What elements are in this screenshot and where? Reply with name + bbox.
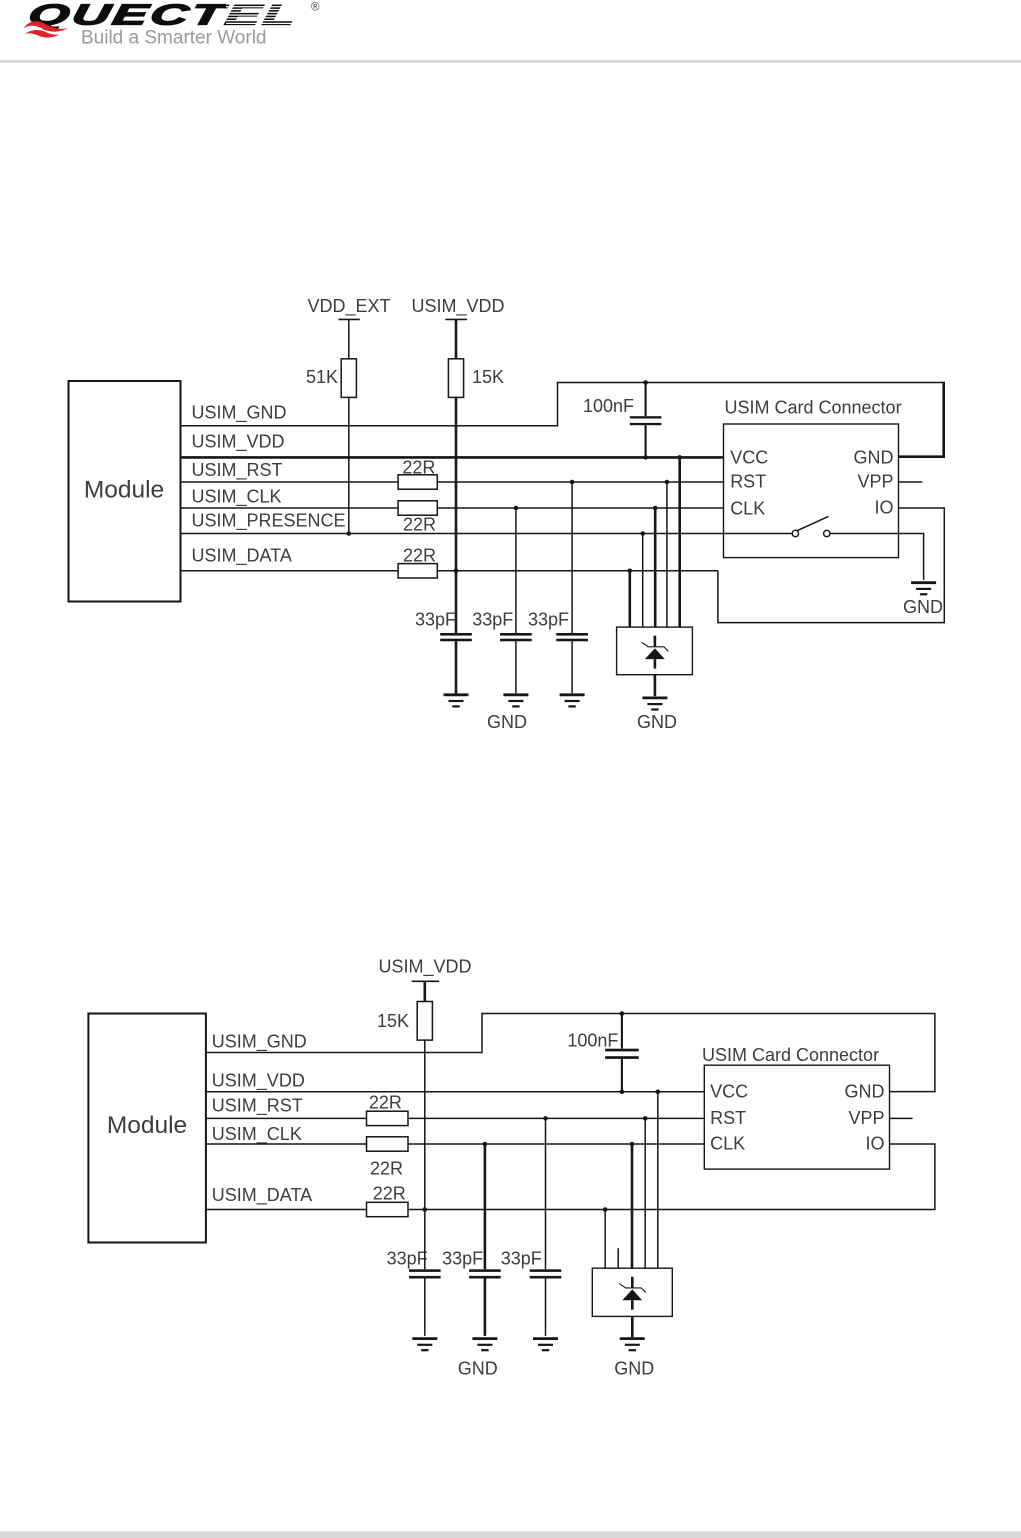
svg-text:®: ® (311, 2, 320, 14)
svg-text:GND: GND (854, 447, 894, 467)
svg-text:33pF: 33pF (528, 610, 569, 630)
resistor 15K (schematic 2) (377, 1002, 432, 1041)
svg-text:CLK: CLK (710, 1134, 745, 1154)
svg-text:USIM_DATA: USIM_DATA (192, 546, 292, 567)
pin label VPP (schematic 1) (857, 471, 893, 491)
capacitor C3 33pF on USIM_RST (schematic 1) (528, 480, 588, 694)
svg-text:USIM_PRESENCE: USIM_PRESENCE (192, 511, 346, 532)
ground under C2 (schematic 2) (472, 1339, 497, 1351)
svg-text:USIM Card Connector: USIM Card Connector (702, 1045, 879, 1065)
svg-text:VCC: VCC (730, 447, 768, 467)
wire USIM_RST to ESD array (665, 480, 670, 627)
resistor 15K (schematic 1) (448, 359, 504, 398)
net label USIM_VDD (schematic 2) (212, 1071, 305, 1092)
svg-text:VDD_EXT: VDD_EXT (307, 296, 390, 317)
wire USIM_GND from module to connector GND (schematic 2) (206, 1014, 935, 1092)
wire IO to USIM_DATA (routed) (718, 508, 944, 623)
svg-text:22R: 22R (403, 546, 436, 566)
junction 100nF top (643, 380, 648, 385)
net label USIM_CLK (schematic 1) (192, 486, 282, 507)
wire VPP stub (899, 481, 923, 483)
pin label VCC (schematic 2) (710, 1081, 748, 1101)
wire USIM_GND from module to top rail and USIM connector GND (181, 383, 944, 426)
svg-text:USIM_DATA: USIM_DATA (212, 1185, 312, 1206)
svg-text:VCC: VCC (710, 1081, 748, 1101)
pin label IO (schematic 1) (874, 498, 893, 518)
svg-text:100nF: 100nF (583, 396, 634, 416)
module block (Module, schematic 1) (69, 381, 181, 602)
svg-text:GND: GND (487, 712, 527, 732)
svg-text:RST: RST (730, 471, 766, 491)
Quectel logo (24, 0, 321, 38)
svg-text:15K: 15K (377, 1011, 409, 1031)
header rule (0, 60, 1021, 63)
svg-text:22R: 22R (369, 1093, 402, 1113)
resistor 22R on USIM_CLK (schematic 2) (367, 1137, 409, 1179)
wire USIM_VDD rail (schematic 2) (206, 1091, 704, 1093)
wire 51K to USIM_PRESENCE (348, 397, 350, 533)
resistor 22R on USIM_RST (schematic 1) (398, 457, 437, 489)
svg-text:VPP: VPP (848, 1108, 884, 1128)
ground under C3 (schematic 2) (533, 1339, 558, 1351)
resistor 22R on USIM_DATA (schematic 2) (367, 1184, 409, 1217)
capacitor C1 33pF on USIM_DATA (schematic 2) (387, 1210, 441, 1336)
pin label IO (schematic 2) (865, 1134, 884, 1154)
svg-text:USIM_VDD: USIM_VDD (192, 431, 285, 452)
capacitor C2 33pF on USIM_CLK (schematic 2, bold) (442, 1142, 501, 1336)
wire USIM_PRESENCE to switch (181, 533, 793, 535)
svg-text:USIM_VDD: USIM_VDD (411, 296, 504, 317)
wire ESD array to ground (654, 675, 657, 697)
wire GND pin stub (bold) (899, 382, 944, 457)
svg-text:Build a Smarter World: Build a Smarter World (81, 28, 267, 49)
wire 15K to USIM_DATA (bold) (455, 397, 458, 570)
svg-text:USIM_GND: USIM_GND (192, 403, 287, 424)
wire USIM_CLK to ESD array (bold) (653, 506, 658, 627)
svg-text:GND: GND (614, 1359, 654, 1379)
USIM card connector box (schematic 1) (724, 398, 902, 558)
svg-text:CLK: CLK (730, 498, 765, 518)
svg-text:IO: IO (865, 1134, 884, 1154)
wire USIM_VDD rail to ESD array (bold) (677, 455, 682, 627)
net label USIM_RST (schematic 2) (212, 1096, 303, 1117)
ground under C1 (schematic 2) (412, 1339, 437, 1351)
wire USIM_DATA (181, 570, 718, 572)
svg-text:GND: GND (845, 1081, 885, 1101)
ground under C3 (560, 695, 585, 707)
junction 100nF bottom (schematic 2) (620, 1090, 625, 1095)
net label USIM_RST (schematic 1) (192, 460, 283, 481)
junction 15K/USIM_DATA (454, 569, 459, 574)
resistor 22R on USIM_CLK (schematic 1) (398, 501, 437, 535)
pin label RST (schematic 2) (710, 1108, 746, 1128)
junction 100nF top (schematic 2) (620, 1011, 625, 1016)
svg-text:VPP: VPP (857, 471, 893, 491)
svg-text:USIM_CLK: USIM_CLK (192, 486, 282, 507)
svg-text:33pF: 33pF (387, 1249, 428, 1269)
junction 51K/USIM_PRESENCE (347, 531, 352, 536)
USIM card connector box (schematic 2) (702, 1045, 890, 1169)
svg-text:GND: GND (903, 597, 943, 617)
pin label CLK (schematic 1) (730, 498, 765, 518)
svg-text:100nF: 100nF (567, 1031, 618, 1051)
footer rule (0, 1531, 1021, 1538)
capacitor C3 33pF on USIM_RST (schematic 2) (501, 1116, 562, 1336)
svg-text:USIM_CLK: USIM_CLK (212, 1124, 302, 1145)
wire USIM_VDD to ESD array (schematic 2) (656, 1090, 661, 1269)
svg-text:USIM_GND: USIM_GND (212, 1032, 307, 1053)
wire USIM_DATA and IO route (schematic 2) (206, 1144, 935, 1210)
net label USIM_DATA (schematic 2) (212, 1185, 312, 1206)
net label USIM_PRESENCE (schematic 1) (192, 511, 346, 532)
ESD protection array (schematic 1) (617, 627, 693, 675)
net label USIM_GND (schematic 1) (192, 403, 287, 424)
net label USIM_DATA (schematic 1) (192, 546, 292, 567)
svg-text:USIM_VDD: USIM_VDD (378, 957, 471, 978)
card presence switch (792, 516, 830, 536)
ground under C2 (503, 695, 528, 707)
ground under ESD array (schematic 2) (614, 1339, 654, 1379)
svg-text:33pF: 33pF (501, 1249, 542, 1269)
svg-text:15K: 15K (472, 367, 504, 387)
ground label under capacitors (schematic 2) (458, 1359, 498, 1379)
wire USIM_PRESENCE to ESD array (640, 531, 645, 627)
wire USIM_RST to ESD array (schematic 2) (643, 1116, 648, 1268)
svg-text:RST: RST (710, 1108, 746, 1128)
net label USIM_VDD (schematic 1) (192, 431, 285, 452)
wire VPP stub (schematic 2) (890, 1117, 913, 1119)
svg-text:22R: 22R (370, 1159, 403, 1179)
wire USIM_RST (schematic 2) (206, 1117, 704, 1119)
resistor 22R on USIM_DATA (schematic 1) (398, 546, 437, 578)
pin label GND (schematic 1) (854, 447, 894, 467)
svg-text:33pF: 33pF (415, 610, 456, 630)
svg-text:22R: 22R (373, 1184, 406, 1204)
ground under ESD array (schematic 1) (637, 698, 677, 732)
svg-text:Module: Module (107, 1112, 187, 1139)
svg-text:33pF: 33pF (472, 610, 513, 630)
pin label CLK (schematic 2) (710, 1134, 745, 1154)
svg-text:USIM_RST: USIM_RST (212, 1096, 303, 1117)
module block (Module, schematic 2) (88, 1014, 205, 1243)
svg-text:USIM_VDD: USIM_VDD (212, 1071, 305, 1092)
svg-text:GND: GND (458, 1359, 498, 1379)
power flag USIM_VDD (schematic 1) (411, 296, 504, 359)
svg-text:GND: GND (637, 712, 677, 732)
wire USIM_CLK (181, 507, 724, 509)
capacitor 100nF (schematic 1) (583, 383, 661, 458)
svg-text:22R: 22R (403, 515, 436, 535)
wire USIM_DATA to ESD array (schematic 2) (603, 1207, 608, 1268)
junction 15K/USIM_DATA (schematic 2) (423, 1207, 428, 1212)
wire switch to ground (830, 534, 924, 580)
svg-text:22R: 22R (402, 457, 435, 477)
wire USIM_CLK (schematic 2) (206, 1143, 704, 1145)
ground label under capacitors (schematic 1) (487, 712, 527, 732)
wire USIM_RST (181, 481, 724, 483)
pin label VCC (schematic 1) (730, 447, 768, 467)
pin label RST (schematic 1) (730, 471, 766, 491)
ESD array unused pin stub (617, 1248, 619, 1268)
svg-text:51K: 51K (306, 367, 338, 387)
tagline (81, 28, 267, 49)
wire USIM_VDD rail (bold) (181, 456, 724, 459)
capacitor C2 33pF on USIM_CLK (schematic 1) (472, 506, 531, 694)
pin label GND (schematic 2) (845, 1081, 885, 1101)
svg-text:USIM Card Connector: USIM Card Connector (725, 398, 902, 418)
svg-text:33pF: 33pF (442, 1249, 483, 1269)
power flag USIM_VDD (schematic 2) (378, 957, 471, 1002)
wire ESD array to ground (schematic 2) (631, 1316, 634, 1337)
net label USIM_CLK (schematic 2) (212, 1124, 302, 1145)
ground under C1 (444, 695, 469, 707)
junction 100nF bottom (643, 455, 648, 460)
ESD protection array (schematic 2) (592, 1268, 672, 1316)
power flag VDD_EXT (307, 296, 390, 359)
wire USIM_CLK to ESD array (schematic 2, bold) (630, 1142, 635, 1269)
wire 15K to USIM_DATA (schematic 2) (424, 1040, 426, 1209)
svg-text:USIM_RST: USIM_RST (192, 460, 283, 481)
resistor 51K (306, 359, 356, 398)
resistor 22R on USIM_RST (schematic 2) (367, 1093, 409, 1126)
ground at switch (903, 583, 943, 617)
wire USIM_DATA to ESD array (bold) (628, 569, 633, 628)
capacitor 100nF (schematic 2) (567, 1014, 638, 1092)
net label USIM_GND (schematic 2) (212, 1032, 307, 1053)
svg-text:IO: IO (874, 498, 893, 518)
pin label VPP (schematic 2) (848, 1108, 884, 1128)
capacitor C1 33pF on USIM_DATA (schematic 1) (415, 571, 472, 694)
svg-text:Module: Module (84, 477, 164, 504)
